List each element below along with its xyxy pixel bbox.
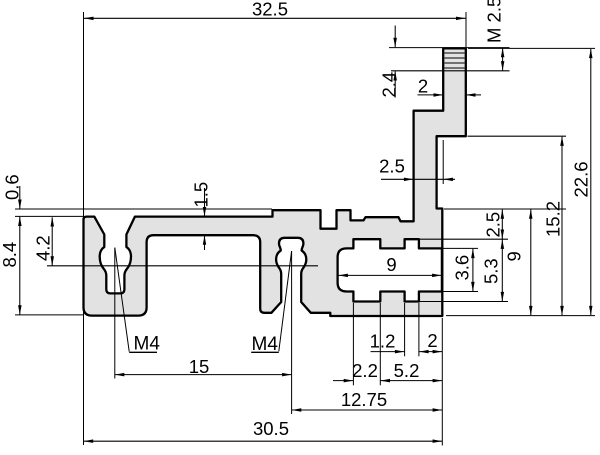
svg-text:5.3: 5.3 bbox=[481, 258, 502, 284]
svg-text:2.5: 2.5 bbox=[483, 212, 504, 238]
svg-text:2.4: 2.4 bbox=[379, 72, 400, 98]
svg-text:4.2: 4.2 bbox=[33, 235, 54, 261]
svg-text:22.6: 22.6 bbox=[571, 161, 592, 197]
svg-text:3.6: 3.6 bbox=[452, 255, 473, 281]
svg-text:0.6: 0.6 bbox=[2, 174, 23, 200]
svg-text:1.5: 1.5 bbox=[191, 182, 212, 208]
svg-text:2: 2 bbox=[418, 76, 428, 97]
svg-text:M4: M4 bbox=[134, 334, 161, 355]
svg-text:1.2: 1.2 bbox=[370, 331, 396, 352]
svg-text:12.75: 12.75 bbox=[341, 389, 387, 410]
svg-text:2.5: 2.5 bbox=[379, 156, 405, 177]
svg-text:9: 9 bbox=[386, 254, 396, 275]
svg-text:30.5: 30.5 bbox=[253, 418, 289, 439]
svg-text:15.2: 15.2 bbox=[543, 201, 564, 237]
svg-text:M4: M4 bbox=[252, 334, 279, 355]
svg-text:15: 15 bbox=[189, 356, 210, 377]
svg-text:5.2: 5.2 bbox=[394, 360, 420, 381]
svg-text:2: 2 bbox=[427, 330, 437, 351]
svg-text:8.4: 8.4 bbox=[0, 242, 20, 268]
svg-text:9: 9 bbox=[504, 251, 525, 261]
svg-text:32.5: 32.5 bbox=[252, 0, 288, 20]
svg-text:2.2: 2.2 bbox=[352, 360, 378, 381]
svg-text:M 2.5: M 2.5 bbox=[484, 0, 505, 43]
